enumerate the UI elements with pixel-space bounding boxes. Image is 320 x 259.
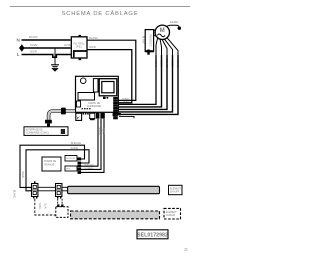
wire L (NOIR) to filter with hop under ground drop (22, 55, 72, 58)
protector top wire to motor (154, 30, 156, 31)
motor harness fan (156, 38, 178, 55)
svg-text:11: 11 (184, 248, 188, 252)
pump box (42, 157, 61, 171)
thick lead inside filter (74, 51, 87, 57)
filter box (71, 37, 87, 58)
svg-text:NOIR: NOIR (102, 128, 105, 134)
PCB bottom black connector (96, 113, 105, 119)
thermal protector box (145, 30, 153, 52)
heater connector 2 (56, 184, 62, 199)
motor top wire JAUNE to ring terminal (166, 25, 179, 27)
svg-text:SEL0172982: SEL0172982 (137, 233, 168, 239)
svg-text:NOIR/BL: NOIR/BL (85, 168, 95, 170)
cable plug into console (45, 120, 52, 127)
wire W5 PCB to pump pin5 (81, 119, 104, 173)
svg-text:SCHÉMA DE CÂBLAGE: SCHÉMA DE CÂBLAGE (62, 10, 139, 17)
PCB mounting hole (80, 78, 86, 84)
pump pins (78, 157, 82, 174)
protector plug connector below (145, 50, 154, 55)
ground terminal symbol (20, 45, 24, 52)
svg-text:ÉLÉMENT: ÉLÉMENT (166, 211, 177, 214)
console interface box (24, 127, 68, 136)
svg-text:BLANC: BLANC (13, 190, 16, 199)
ground drop wire (54, 48, 56, 65)
heater label box (169, 185, 183, 194)
PCB main board (76, 76, 119, 112)
svg-text:PPS: PPS (66, 169, 71, 171)
part number box (137, 230, 168, 239)
PCB left-edge component (77, 101, 81, 107)
svg-text:NOIR: NOIR (30, 50, 37, 54)
PCB small vertical component (93, 79, 98, 92)
PCB bottom right connector bits (113, 113, 121, 116)
ribbon cable core (49, 111, 75, 121)
svg-text:COMMANDE: COMMANDE (87, 105, 102, 108)
wire NOIR filter to PCB (down right side) (87, 50, 132, 103)
filter top nub (79, 35, 82, 37)
earth ground symbol (51, 65, 59, 72)
filter bottom nub (79, 58, 82, 60)
svg-text:VIDANGE: VIDANGE (44, 163, 55, 166)
wire ground (JA/VE) to filter (24, 47, 71, 49)
protector lower wire to motor (154, 35, 157, 36)
PCB bottom connector box (76, 113, 82, 120)
svg-text:JA/VE: JA/VE (64, 44, 71, 47)
dashed element bar (71, 211, 160, 219)
wire W4 PCB to pump pin4 (81, 119, 101, 170)
wires between connectors (38, 186, 56, 188)
svg-text:INTERFACE DE: INTERFACE DE (26, 129, 43, 132)
dashed label box (164, 208, 181, 219)
svg-text:BLANC: BLANC (29, 35, 38, 39)
PCB dotted connector row (82, 108, 91, 109)
svg-text:(P.E.): (P.E.) (76, 46, 82, 49)
svg-text:VAPEUR: VAPEUR (166, 214, 176, 217)
svg-text:JA/VE: JA/VE (30, 43, 37, 47)
steam connector box dashed (56, 207, 68, 218)
dashed drop from connector1 (35, 199, 56, 215)
PCB right edge connector pins (113, 97, 118, 119)
svg-text:PROTECT.: PROTECT. (149, 34, 152, 47)
svg-text:CHAUFF.: CHAUFF. (170, 191, 180, 194)
motor M (155, 25, 169, 39)
PCB transformer inner (102, 82, 114, 93)
PCB transformer outer (99, 79, 117, 96)
wire BLANC filter to PCB (down right side) (87, 40, 136, 100)
svg-text:JAUNE: JAUNE (170, 21, 179, 24)
svg-text:BLANC: BLANC (98, 128, 101, 136)
svg-text:POMPE DE: POMPE DE (44, 161, 57, 163)
svg-text:NOIR: NOIR (123, 101, 129, 103)
wire W3 PCB to pump pin3 (81, 119, 98, 167)
svg-text:L: L (17, 52, 20, 57)
ribbon cable to console (outline) (49, 111, 75, 121)
svg-text:BLANC: BLANC (89, 36, 98, 40)
PCB smd parts (103, 97, 108, 99)
cable ferrite bead (61, 108, 66, 115)
svg-text:MOTEUR: MOTEUR (66, 158, 75, 160)
console dark component (61, 129, 65, 134)
motor wires down to PCB connector rows (117, 55, 178, 114)
ring terminal dot (178, 27, 181, 30)
PCB wide component (78, 93, 95, 101)
stub wire right of bottom connector (119, 116, 134, 118)
svg-text:BL/N: BL/N (44, 203, 47, 209)
svg-text:NOIR: NOIR (89, 45, 96, 49)
heater connector 1 (32, 181, 38, 198)
pump lower component box (65, 166, 77, 171)
svg-text:ÉLÉMENT: ÉLÉMENT (170, 187, 181, 190)
wire W2 inner rail to pump pin2 (26, 150, 89, 191)
svg-text:COMMANDE (CONS.): COMMANDE (CONS.) (26, 132, 49, 135)
wire W1 left rail to pump pin1 (20, 145, 85, 187)
svg-text:NOIR: NOIR (21, 171, 24, 177)
PCB bottom comb connector 2 (90, 113, 95, 120)
svg-text:BLEU/GE: BLEU/GE (84, 165, 94, 167)
dashed stubs below connector2 (57, 199, 59, 207)
wires connector2 to heater (62, 186, 68, 188)
svg-text:BLANC: BLANC (142, 36, 145, 45)
top rule (10, 6, 190, 8)
svg-text:M: M (160, 28, 165, 34)
PCB bottom teeth row (83, 113, 89, 115)
pump upper component box (65, 156, 77, 162)
heater element bar (68, 186, 160, 193)
svg-text:NOIR: NOIR (38, 203, 41, 209)
wire N (BLANC) to filter (22, 39, 71, 41)
